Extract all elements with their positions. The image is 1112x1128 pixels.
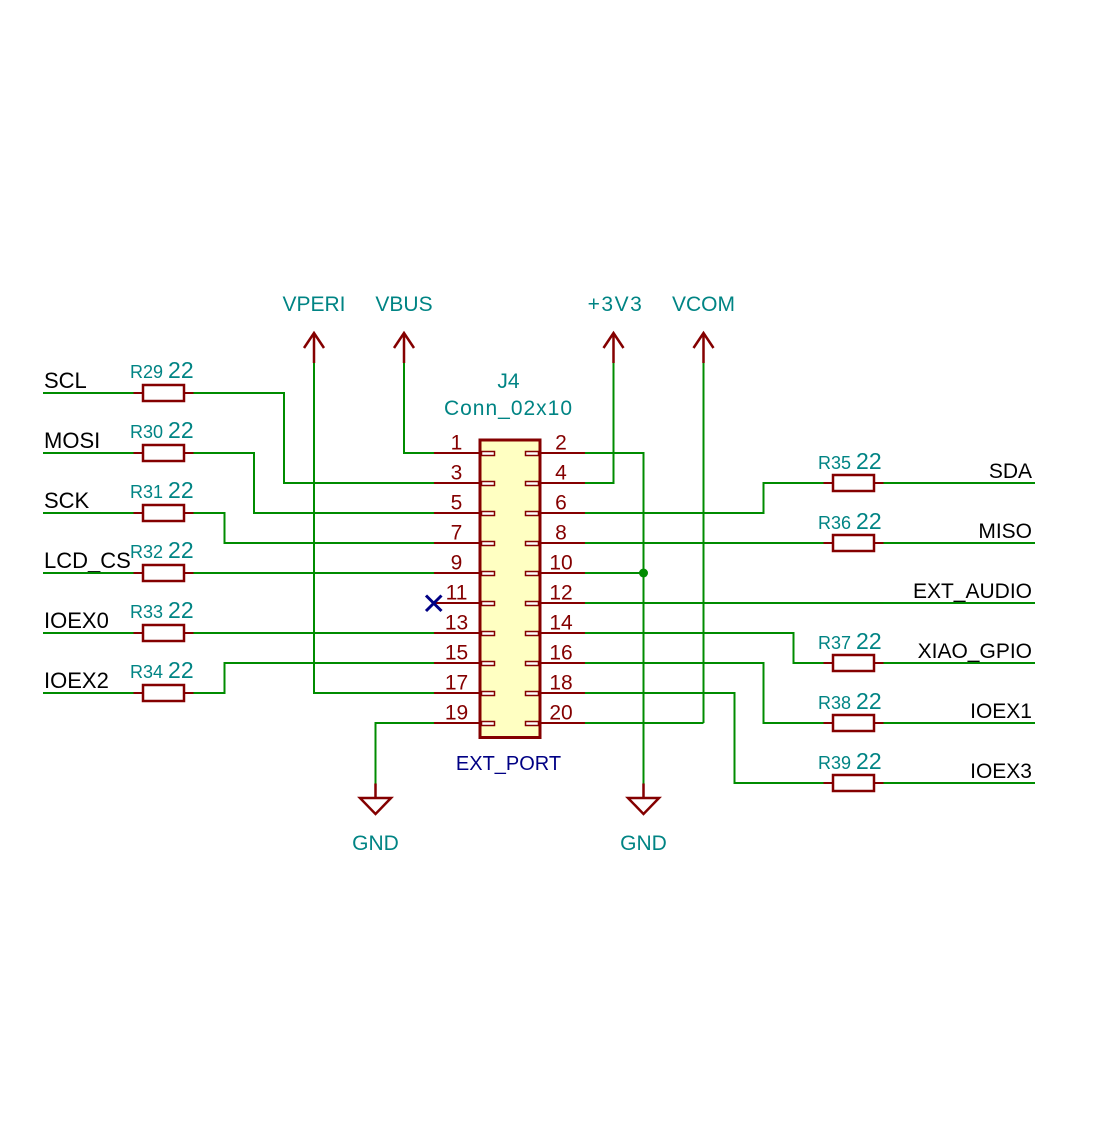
- resistor R36: [818, 508, 884, 551]
- svg-text:J4: J4: [497, 370, 520, 393]
- svg-text:18: 18: [549, 672, 572, 695]
- wire: [194, 513, 435, 543]
- ground: [620, 784, 667, 856]
- wire: [585, 453, 644, 784]
- wire: [43, 572, 134, 574]
- resistor R39: [818, 748, 884, 791]
- svg-text:IOEX1: IOEX1: [970, 700, 1032, 723]
- resistor R35: [818, 448, 884, 491]
- wire: [585, 663, 824, 723]
- svg-text:12: 12: [549, 582, 572, 605]
- pin 1: [434, 432, 495, 456]
- svg-text:7: 7: [451, 522, 463, 545]
- pin 9: [434, 552, 495, 576]
- svg-text:MISO: MISO: [978, 520, 1032, 543]
- svg-text:Conn_02x10: Conn_02x10: [444, 397, 573, 420]
- svg-text:19: 19: [445, 702, 468, 725]
- wire: [194, 663, 435, 693]
- svg-text:17: 17: [445, 672, 468, 695]
- pin 7: [434, 522, 495, 546]
- svg-text:SDA: SDA: [989, 460, 1032, 483]
- svg-text:9: 9: [451, 552, 463, 575]
- wire: [585, 633, 824, 663]
- wire: [43, 632, 134, 634]
- svg-text:11: 11: [446, 582, 468, 605]
- svg-text:6: 6: [555, 492, 567, 515]
- wire: [194, 632, 435, 634]
- pin 10: [526, 552, 586, 576]
- pin 13: [434, 612, 495, 636]
- power flag VCOM: [672, 293, 735, 363]
- resistor R34: [130, 657, 194, 701]
- pin 11: [434, 582, 495, 606]
- power flag VBUS: [375, 293, 432, 363]
- resistor R29: [130, 357, 194, 401]
- wire: [194, 393, 435, 483]
- svg-text:4: 4: [555, 462, 567, 485]
- wire: [43, 512, 134, 514]
- wire: [43, 392, 134, 394]
- wire: [376, 723, 435, 784]
- svg-text:EXT_AUDIO: EXT_AUDIO: [913, 580, 1032, 603]
- wire: [884, 662, 1036, 664]
- wire: [585, 572, 644, 574]
- pin 20: [526, 702, 586, 726]
- svg-text:20: 20: [549, 702, 572, 725]
- svg-text:3: 3: [451, 462, 463, 485]
- svg-text:IOEX3: IOEX3: [970, 760, 1032, 783]
- pin 14: [526, 612, 586, 636]
- svg-text:10: 10: [549, 552, 572, 575]
- pin 18: [526, 672, 586, 696]
- resistor R31: [130, 477, 194, 521]
- resistor R37: [818, 628, 884, 671]
- wire: [884, 722, 1036, 724]
- wire: [194, 572, 435, 574]
- resistor R33: [130, 597, 194, 641]
- wire: [194, 453, 435, 513]
- pin 6: [526, 492, 586, 516]
- svg-text:GND: GND: [620, 832, 667, 855]
- svg-text:15: 15: [445, 642, 468, 665]
- pin 3: [434, 462, 495, 486]
- svg-text:SCK: SCK: [44, 488, 90, 513]
- wire: [404, 363, 434, 453]
- wire: [43, 452, 134, 454]
- resistor R32: [130, 537, 194, 581]
- svg-text:2: 2: [555, 432, 567, 455]
- pin 16: [526, 642, 586, 666]
- wire: [585, 602, 1035, 604]
- svg-text:GND: GND: [352, 832, 399, 855]
- svg-text:SCL: SCL: [44, 368, 87, 393]
- resistor R38: [818, 688, 884, 731]
- wire: [884, 482, 1036, 484]
- ground: [352, 784, 399, 856]
- svg-text:+3V3: +3V3: [588, 293, 644, 316]
- wire: [703, 363, 705, 723]
- junction: [639, 569, 648, 578]
- pin 17: [434, 672, 495, 696]
- wire: [314, 363, 434, 693]
- svg-text:IOEX0: IOEX0: [44, 608, 109, 633]
- svg-text:XIAO_GPIO: XIAO_GPIO: [918, 640, 1032, 663]
- svg-text:LCD_CS: LCD_CS: [44, 548, 131, 573]
- wire: [585, 693, 824, 783]
- pin 4: [526, 462, 586, 486]
- pin 5: [434, 492, 495, 516]
- power flag VPERI: [282, 293, 345, 363]
- svg-text:14: 14: [549, 612, 573, 635]
- svg-text:5: 5: [451, 492, 463, 515]
- resistor R30: [130, 417, 194, 461]
- pin 8: [526, 522, 586, 546]
- svg-text:IOEX2: IOEX2: [44, 668, 109, 693]
- pin 15: [434, 642, 495, 666]
- svg-text:VBUS: VBUS: [375, 293, 432, 316]
- pin 12: [526, 582, 586, 606]
- pin 19: [434, 702, 495, 726]
- svg-text:8: 8: [555, 522, 567, 545]
- svg-text:13: 13: [445, 612, 468, 635]
- wire: [43, 692, 134, 694]
- svg-text:1: 1: [451, 432, 463, 455]
- pin 2: [526, 432, 586, 456]
- svg-text:MOSI: MOSI: [44, 428, 100, 453]
- svg-text:VCOM: VCOM: [672, 293, 735, 316]
- wire: [585, 363, 614, 483]
- svg-text:VPERI: VPERI: [282, 293, 345, 316]
- wire: [585, 722, 704, 724]
- wire: [585, 483, 824, 513]
- connector J4: [444, 370, 573, 775]
- svg-text:16: 16: [549, 642, 572, 665]
- power flag +3V3: [588, 293, 644, 363]
- wire: [884, 782, 1036, 784]
- svg-text:EXT_PORT: EXT_PORT: [456, 753, 561, 775]
- no-connect pin 11: [426, 596, 442, 612]
- wire: [585, 542, 824, 544]
- wire: [884, 542, 1036, 544]
